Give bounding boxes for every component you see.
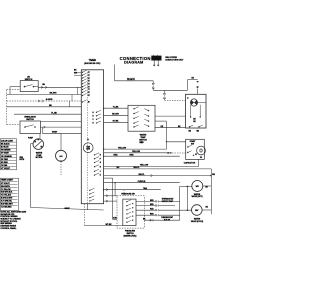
pressure switch outputs to thermostat contacts [136,200,155,202]
wire to pressure switch body [104,200,117,202]
wire into start box top [167,141,186,143]
wire unbalance top to timer [40,120,81,122]
drive motor box [186,94,207,128]
wire YL-BK to timer [14,113,81,115]
wire YELLOW from timer to temp switch riser [104,148,167,150]
svg-text:WH: WH [212,174,216,176]
inline connector on black wire [152,83,154,85]
wire to pressure switch top [104,195,117,197]
svg-text:6T: 6T [88,86,90,88]
wire color code table 2 [0,178,18,210]
svg-text:WH-YL: WH-YL [138,174,144,176]
wire color code table 1 [0,139,16,170]
wire pump left leg down [31,143,33,145]
svg-text:BLK BK: BLK BK [164,219,171,221]
wire WT-BK bottom run [85,225,123,227]
svg-text:TAN: TAN [143,187,147,190]
timer left contacts column [82,72,83,73]
right return riser [210,169,212,214]
svg-text:BK: BK [74,69,77,71]
svg-text:BK-WH: BK-WH [50,93,57,95]
svg-text:WV: WV [196,186,200,188]
svg-text:T-R TAN-RED: T-R TAN-RED [1,206,12,209]
drain solenoid node [60,133,62,150]
wire MAIN into motor box [155,127,186,129]
timer right contacts upper [96,112,97,113]
svg-text:3T: 3T [88,78,90,80]
wire GRAY to agitate solenoid [42,132,81,134]
svg-text:GY-BK: GY-BK [113,121,119,123]
dashed capacitor lead [172,152,186,154]
dashed wire with arrows [7,100,82,102]
svg-text:A-S: A-S [60,155,64,158]
riser a [77,87,79,94]
svg-text:DIAGRAM: DIAGRAM [124,61,143,65]
svg-text:RED: RED [114,154,119,156]
wire lid switch to timer with connector [38,86,81,88]
svg-text:PRESSURE SW: PRESSURE SW [121,193,135,195]
svg-text:VT VIOLET: VT VIOLET [1,168,11,170]
svg-text:TP: TP [197,87,200,89]
wire BU to timer [7,106,82,108]
svg-text:YL-BK: YL-BK [51,112,57,114]
svg-text:BLACK: BLACK [127,78,135,81]
wire TAN [104,189,161,191]
svg-text:10: 10 [88,102,90,104]
svg-text:5M: 5M [189,130,192,132]
wire start box lead down and left (yellow) [198,159,200,166]
wire BK out of pressure switch [144,219,179,221]
svg-text:BK: BK [192,78,195,80]
svg-text:WV: WV [195,210,199,212]
wire PURPLE [104,182,180,184]
svg-text:8T: 8T [88,92,90,94]
riser b [71,95,73,102]
svg-text:D: D [93,123,95,125]
lid switch box [20,81,38,92]
svg-text:J: J [100,171,101,173]
wire: black line cord from diagram title to plug node [114,65,116,81]
start switch box [186,139,205,159]
svg-text:4L-BKR: 4L-BKR [46,99,53,101]
timer input stubs BK WH [74,71,81,73]
dashed riser near pressure switch top [123,190,125,196]
power cord plug P1 (black block) [151,56,161,61]
svg-text:7T: 7T [88,89,90,91]
svg-text:YELLOW: YELLOW [118,147,126,149]
svg-text:YELLOW: YELLOW [140,165,148,167]
svg-text:2M: 2M [193,121,196,123]
pressure switch inner box [123,199,136,226]
svg-text:YL-BK: YL-BK [113,106,119,108]
riser from temp switch [166,121,168,149]
svg-text:TIMER: TIMER [89,59,97,62]
wire main winding from temp switch [155,115,186,117]
svg-text:VALVE (COLD): VALVE (COLD) [191,220,204,223]
drain valve solenoid [56,150,67,161]
cold water valve V2 [192,205,203,216]
svg-text:SWITCH: SWITCH [26,119,34,121]
timer right contacts mid [94,154,95,155]
wire to pressure switch riser 1 [104,177,113,179]
svg-text:YELLOW: YELLOW [132,151,140,153]
timer cam line (dashed) [87,72,89,204]
wire YELLOW to start switch [104,152,172,154]
thermostat row wires [159,200,180,202]
svg-text:CONDUCTORS ONLY: CONDUCTORS ONLY [165,59,184,61]
wire unbalance junction down [41,127,43,133]
pressure switch outer dashed box [117,196,144,228]
start switch contacts [187,146,188,147]
svg-text:(WATER LEVEL): (WATER LEVEL) [124,234,137,237]
svg-text:PUMP: PUMP [28,138,34,140]
start winding rotor [197,146,206,155]
svg-text:MTR: MTR [86,149,90,151]
water temp switch contacts [133,108,134,109]
svg-text:B: B [93,116,94,118]
svg-text:1T: 1T [88,72,90,74]
svg-text:MOTOR: MOTOR [36,157,43,159]
wire GRAY bottom run [31,208,104,211]
wire GY-BK into temp switch [104,121,128,123]
hot water valve V1 [192,181,203,192]
wire lid sw left leg [10,86,20,88]
wire WH-YL common [104,175,212,177]
motor winding leads [190,105,192,117]
svg-text:WT-BK: WT-BK [106,224,113,226]
svg-text:F: F [100,158,101,160]
water temperature switch box [128,105,155,131]
svg-text:SW: SW [191,144,194,146]
wire YL-BK into temp switch [104,107,128,109]
unbalance switch box [20,121,40,134]
svg-text:2T: 2T [88,75,90,77]
riser to hot valve [179,201,181,220]
wire down to pump motor [39,134,41,139]
wire BK-WH to timer [7,94,82,96]
svg-text:5T: 5T [88,84,90,86]
water pump motor M2 [33,139,44,150]
valve return stubs [203,185,212,187]
dashed lead below solenoid [60,161,62,175]
wire BU to water valve feed [104,168,212,170]
svg-text:(SHOWN IN OFF): (SHOWN IN OFF) [84,63,100,65]
wire BU-WH into temp switch [104,114,128,116]
svg-text:NOTE: NOTE [20,159,26,161]
svg-text:WH-YL: WH-YL [133,167,139,169]
svg-text:VALVE (HOT): VALVE (HOT) [191,195,202,198]
drive motor M3 [190,99,197,106]
svg-text:G: G [100,162,102,164]
svg-text:C: C [93,119,95,121]
svg-text:TIMER CHART: TIMER CHART [1,179,14,182]
svg-text:4T: 4T [88,81,90,83]
svg-text:E: E [100,155,101,157]
svg-text:6M: 6M [197,130,200,132]
riser c [69,101,71,107]
svg-text:CAPACITOR: CAPACITOR [184,162,196,165]
svg-text:H: H [100,166,102,168]
wire V-BK into pressure switch [113,219,117,221]
wire RED to thermostat riser [104,155,180,157]
svg-text:BK: BK [206,207,209,209]
svg-text:CONTROL PANEL.: CONTROL PANEL. [0,227,17,230]
svg-text:9T: 9T [88,95,90,97]
plug pin L1 with arrow [153,61,155,65]
svg-text:OR: OR [205,187,208,189]
timer bottom left dashed leg [84,204,86,226]
svg-text:BU-WH: BU-WH [112,114,119,116]
dashed lead with connector into motor box [164,90,166,93]
svg-text:PURPLE: PURPLE [138,181,146,183]
timer motor M1 [87,139,89,141]
plug pin N with arrow [157,61,159,65]
motor lower contacts 5M 6M [189,126,190,127]
svg-text:WH: WH [74,72,78,74]
wire to hot water valve [180,185,192,187]
wire unbalance to timer [40,126,81,128]
svg-text:RED: RED [140,142,145,144]
timer box [81,70,103,204]
svg-text:GRAY: GRAY [52,131,58,134]
svg-text:RED: RED [130,154,135,156]
valve common riser [186,186,188,210]
svg-text:GN: GN [42,84,45,86]
wire down from plug with inline connector [152,81,154,83]
timer cam leg below box [87,204,89,210]
left dashed vertical riser [6,90,8,125]
svg-text:A: A [93,111,95,114]
svg-text:GRAY: GRAY [64,207,70,210]
svg-text:K: K [100,175,102,177]
wire to thermal protector loop [153,89,187,91]
pressure switch contacts [126,201,127,202]
timer lower contacts [89,190,90,191]
arrow into drive motor box [196,81,199,83]
